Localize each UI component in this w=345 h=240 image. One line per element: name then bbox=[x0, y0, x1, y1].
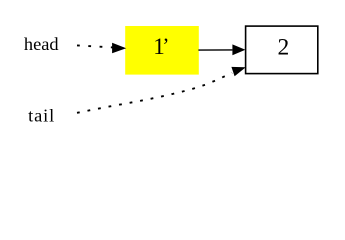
svg-text:head: head bbox=[24, 34, 59, 54]
svg-text:’: ’ bbox=[162, 34, 169, 58]
svg-text:tail: tail bbox=[28, 105, 55, 125]
svg-text:2: 2 bbox=[278, 35, 290, 61]
